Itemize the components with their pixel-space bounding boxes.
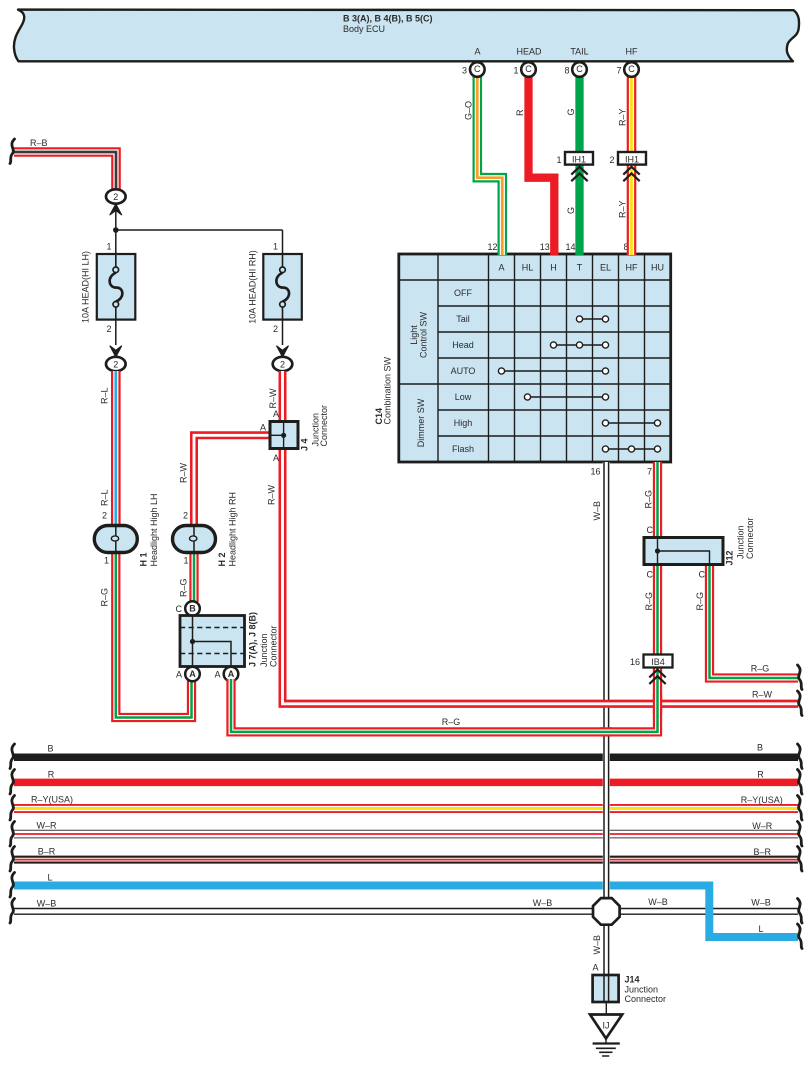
svg-text:R: R [48, 770, 55, 780]
svg-text:1: 1 [513, 66, 518, 76]
svg-text:2: 2 [280, 359, 285, 369]
svg-text:TAIL: TAIL [570, 47, 588, 57]
svg-text:HL: HL [522, 263, 534, 273]
svg-text:W–B: W–B [648, 897, 668, 907]
svg-text:B–R: B–R [38, 847, 56, 857]
svg-text:R–Y: R–Y [618, 108, 628, 126]
svg-text:13: 13 [540, 242, 550, 252]
svg-text:J14: J14 [625, 975, 640, 985]
svg-text:G–O: G–O [464, 101, 474, 120]
svg-text:1: 1 [556, 155, 561, 165]
svg-text:L: L [758, 924, 763, 934]
svg-text:Connector: Connector [269, 625, 279, 667]
svg-text:IJ: IJ [602, 1021, 609, 1031]
svg-text:R–W: R–W [752, 690, 773, 700]
svg-text:Dimmer SW: Dimmer SW [416, 398, 426, 447]
svg-text:AUTO: AUTO [451, 366, 476, 376]
svg-text:R–L: R–L [100, 387, 110, 404]
svg-text:1: 1 [104, 556, 109, 566]
svg-text:HF: HF [626, 47, 638, 57]
svg-text:HU: HU [651, 263, 664, 273]
svg-text:HEAD: HEAD [516, 47, 542, 57]
svg-text:A: A [273, 453, 279, 463]
svg-text:A: A [592, 963, 598, 973]
svg-text:A: A [176, 670, 182, 680]
svg-text:C: C [525, 64, 532, 74]
svg-text:B 3(A), B 4(B), B 5(C): B 3(A), B 4(B), B 5(C) [343, 14, 433, 24]
svg-text:16: 16 [590, 467, 600, 477]
svg-text:7: 7 [616, 66, 621, 76]
svg-text:C: C [647, 525, 654, 535]
svg-text:8: 8 [564, 66, 569, 76]
svg-text:R–G: R–G [644, 592, 654, 611]
svg-text:J12: J12 [725, 550, 735, 565]
svg-text:R: R [515, 109, 525, 116]
svg-text:2: 2 [113, 192, 118, 202]
svg-text:H 1: H 1 [139, 552, 149, 566]
svg-text:A: A [214, 670, 220, 680]
svg-text:R–W: R–W [179, 462, 189, 483]
svg-text:W–R: W–R [37, 821, 58, 831]
svg-text:J 4: J 4 [300, 438, 310, 451]
svg-text:A: A [474, 47, 480, 57]
svg-text:1: 1 [106, 242, 111, 252]
svg-text:R–G: R–G [179, 578, 189, 597]
svg-text:A: A [189, 669, 196, 679]
svg-text:Low: Low [455, 392, 472, 402]
svg-text:16: 16 [630, 657, 640, 667]
svg-text:Tail: Tail [456, 314, 470, 324]
svg-text:Connector: Connector [625, 994, 667, 1004]
svg-text:Connector: Connector [745, 517, 755, 559]
svg-text:A: A [260, 423, 266, 433]
svg-text:T: T [577, 263, 583, 273]
svg-text:B: B [189, 603, 196, 613]
svg-text:B: B [757, 743, 763, 753]
svg-text:Combination SW: Combination SW [383, 356, 393, 424]
svg-text:R–G: R–G [442, 717, 461, 727]
svg-text:R–G: R–G [751, 664, 770, 674]
svg-text:C: C [628, 64, 635, 74]
svg-text:A: A [498, 263, 504, 273]
svg-text:2: 2 [183, 511, 188, 521]
svg-text:R–G: R–G [644, 490, 654, 509]
svg-text:7: 7 [647, 467, 652, 477]
svg-text:C: C [647, 570, 654, 580]
svg-text:R–W: R–W [268, 388, 278, 409]
svg-text:W–B: W–B [533, 898, 553, 908]
svg-text:R–Y: R–Y [618, 200, 628, 218]
svg-text:3: 3 [462, 66, 467, 76]
svg-text:W–R: W–R [752, 821, 773, 831]
svg-text:W–B: W–B [592, 935, 602, 955]
svg-text:R: R [757, 770, 764, 780]
svg-text:1: 1 [273, 242, 278, 252]
svg-text:Flash: Flash [452, 444, 474, 454]
svg-text:2: 2 [609, 155, 614, 165]
svg-text:R–Y(USA): R–Y(USA) [741, 795, 783, 805]
svg-text:R–G: R–G [100, 588, 110, 607]
svg-text:C: C [474, 64, 481, 74]
svg-text:10A HEAD(HI RH): 10A HEAD(HI RH) [248, 250, 258, 324]
svg-text:W–B: W–B [751, 898, 771, 908]
svg-text:C: C [576, 64, 583, 74]
svg-text:10A HEAD(HI LH): 10A HEAD(HI LH) [81, 251, 91, 323]
svg-text:Junction: Junction [259, 633, 269, 667]
svg-text:IB4: IB4 [651, 657, 665, 667]
svg-text:HF: HF [626, 263, 638, 273]
svg-text:H: H [550, 263, 557, 273]
svg-text:L: L [47, 873, 52, 883]
svg-text:Control SW: Control SW [419, 311, 429, 358]
svg-text:12: 12 [487, 242, 497, 252]
svg-text:IH1: IH1 [572, 154, 586, 164]
svg-text:1: 1 [183, 556, 188, 566]
svg-text:Head: Head [452, 340, 474, 350]
svg-text:Headlight High LH: Headlight High LH [149, 493, 159, 566]
svg-text:W–B: W–B [592, 501, 602, 521]
svg-text:High: High [454, 418, 473, 428]
svg-text:J 7(A), J 8(B): J 7(A), J 8(B) [248, 612, 258, 667]
svg-text:2: 2 [106, 324, 111, 334]
svg-text:Body ECU: Body ECU [343, 24, 385, 34]
svg-text:OFF: OFF [454, 288, 472, 298]
svg-text:A: A [273, 409, 279, 419]
svg-text:Connector: Connector [319, 405, 329, 447]
svg-text:R–Y(USA): R–Y(USA) [31, 795, 73, 805]
svg-text:EL: EL [600, 263, 611, 273]
svg-text:R–G: R–G [695, 592, 705, 611]
svg-text:14: 14 [565, 242, 575, 252]
svg-text:2: 2 [102, 511, 107, 521]
svg-text:Headlight High RH: Headlight High RH [228, 492, 238, 567]
svg-text:Junction: Junction [736, 525, 746, 559]
svg-text:B: B [47, 744, 53, 754]
svg-text:R–W: R–W [267, 484, 277, 505]
svg-text:G: G [566, 207, 576, 214]
svg-text:B–R: B–R [753, 847, 771, 857]
svg-text:W–B: W–B [37, 899, 57, 909]
svg-text:C: C [176, 604, 183, 614]
svg-text:H 2: H 2 [217, 552, 227, 566]
svg-text:R–B: R–B [30, 138, 48, 148]
svg-text:IH1: IH1 [625, 154, 639, 164]
svg-text:2: 2 [113, 359, 118, 369]
svg-text:A: A [228, 669, 235, 679]
svg-text:R–L: R–L [100, 489, 110, 506]
svg-text:2: 2 [273, 324, 278, 334]
svg-text:G: G [566, 108, 576, 115]
svg-text:C: C [699, 570, 706, 580]
svg-text:Light: Light [409, 325, 419, 345]
